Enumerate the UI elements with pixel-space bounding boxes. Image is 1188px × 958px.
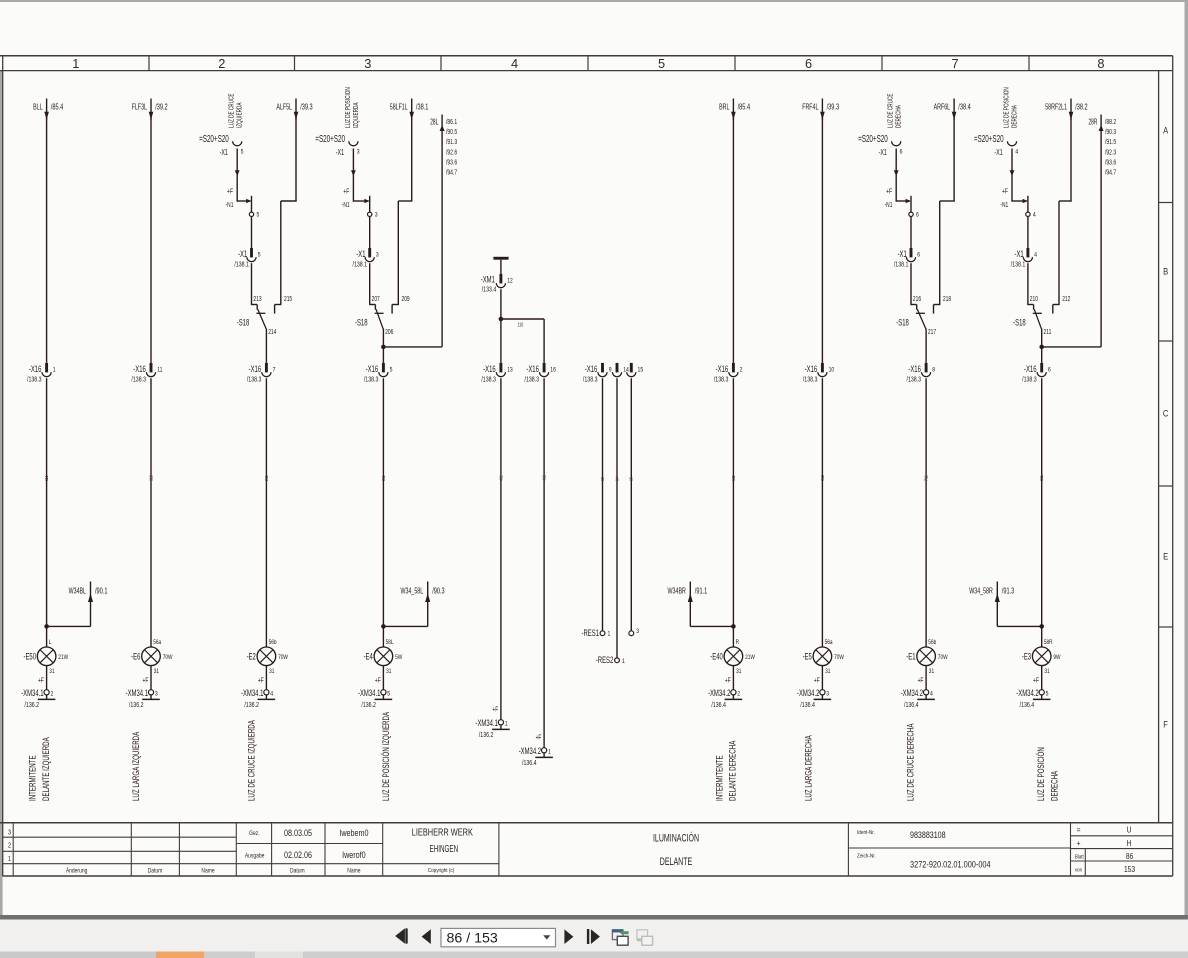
svg-text:ILUMINACIÓN: ILUMINACIÓN (653, 832, 699, 844)
svg-text:BRL: BRL (719, 104, 730, 112)
svg-text:/92.3: /92.3 (1105, 148, 1117, 156)
svg-text:811: 811 (1039, 475, 1045, 481)
svg-text:-X16: -X16 (1024, 364, 1037, 375)
svg-text:412: 412 (541, 475, 547, 481)
svg-text:/138.3: /138.3 (803, 376, 818, 384)
svg-text:5: 5 (658, 56, 665, 71)
svg-text:/90.1: /90.1 (95, 588, 108, 596)
svg-text:-XM34.1: -XM34.1 (358, 688, 380, 699)
svg-text:-X16: -X16 (805, 364, 818, 375)
svg-text:08.03.05: 08.03.05 (284, 828, 312, 838)
svg-text:ALF5L: ALF5L (276, 104, 292, 112)
svg-text:65: 65 (599, 477, 605, 481)
svg-text:/138.3: /138.3 (1022, 376, 1037, 384)
svg-text:16: 16 (550, 367, 556, 374)
svg-text:-X16: -X16 (133, 364, 146, 375)
svg-text:Änderung: Änderung (66, 867, 87, 875)
svg-text:3: 3 (8, 829, 12, 837)
svg-text:LUZ DE CRUCE IZQUIERDA: LUZ DE CRUCE IZQUIERDA (246, 720, 257, 801)
svg-text:/138.3: /138.3 (525, 376, 540, 384)
svg-text:11: 11 (157, 367, 163, 374)
svg-text:7: 7 (951, 56, 958, 71)
svg-text:+F: +F (142, 676, 148, 684)
svg-text:Iwerof0: Iwerof0 (342, 850, 366, 860)
svg-text:W34BR: W34BR (668, 588, 686, 596)
svg-text:217: 217 (928, 328, 937, 336)
svg-text:/136.2: /136.2 (479, 731, 494, 739)
svg-text:15: 15 (628, 477, 634, 481)
svg-text:-N1: -N1 (1000, 201, 1008, 209)
svg-text:612: 612 (819, 475, 825, 481)
svg-text:14: 14 (614, 477, 620, 481)
svg-text:+F: +F (1002, 188, 1008, 196)
svg-text:-N1: -N1 (885, 201, 893, 209)
svg-text:/138.3: /138.3 (583, 376, 598, 384)
svg-text:E: E (1163, 551, 1168, 562)
svg-text:206: 206 (385, 328, 394, 336)
svg-text:/90.3: /90.3 (432, 588, 445, 596)
svg-text:311: 311 (380, 475, 386, 481)
svg-text:-XM34.1: -XM34.1 (21, 688, 43, 699)
svg-text:B: B (1163, 266, 1168, 277)
svg-text:DERECHA: DERECHA (896, 104, 903, 128)
svg-text:2: 2 (218, 56, 225, 71)
svg-text:31: 31 (386, 668, 391, 675)
svg-text:-X16: -X16 (716, 364, 729, 375)
svg-text:FRF4L: FRF4L (802, 104, 818, 112)
svg-text:56a: 56a (153, 639, 162, 646)
svg-text:70W: 70W (938, 655, 948, 662)
svg-text:-X1: -X1 (356, 249, 365, 260)
svg-text:-X16: -X16 (908, 364, 921, 375)
svg-text:/138.3: /138.3 (364, 376, 379, 384)
svg-text:/138.1: /138.1 (1011, 261, 1026, 269)
svg-text:+F: +F (343, 188, 349, 196)
svg-text:56b: 56b (269, 639, 278, 646)
svg-text:LUZ DE CRUCE: LUZ DE CRUCE (229, 93, 236, 128)
svg-text:-X16: -X16 (483, 364, 496, 375)
svg-text:+F: +F (536, 734, 542, 742)
svg-text:+F: +F (814, 676, 820, 684)
svg-text:-X1: -X1 (879, 148, 887, 158)
svg-text:W34_58R: W34_58R (969, 588, 993, 596)
svg-text:INTERMITENTE: INTERMITENTE (714, 755, 725, 801)
svg-text:-X1: -X1 (1014, 249, 1023, 260)
svg-text:+F: +F (1033, 676, 1039, 684)
svg-text:31: 31 (929, 668, 934, 675)
svg-text:EHINGEN: EHINGEN (429, 842, 458, 854)
svg-text:70W: 70W (163, 655, 173, 662)
svg-text:INTERMITENTE: INTERMITENTE (27, 755, 38, 801)
svg-text:U: U (1127, 825, 1132, 835)
svg-text:LUZ DE POSICION: LUZ DE POSICION (1004, 87, 1011, 128)
svg-text:-XM1: -XM1 (481, 274, 495, 285)
svg-text:+F: +F (227, 188, 233, 196)
svg-text:1: 1 (8, 855, 12, 863)
svg-text:/136.4: /136.4 (800, 701, 815, 709)
svg-text:-S18: -S18 (237, 317, 250, 328)
svg-text:LUZ DE CRUCE: LUZ DE CRUCE (888, 93, 895, 128)
svg-text:LUZ DE POSICIÓN: LUZ DE POSICIÓN (1036, 747, 1047, 801)
svg-text:2: 2 (8, 842, 12, 850)
svg-text:W34_58L: W34_58L (401, 588, 424, 596)
svg-text:209: 209 (402, 295, 411, 303)
svg-text:6: 6 (805, 56, 812, 71)
svg-text:=: = (1077, 825, 1081, 835)
svg-text:/91.5: /91.5 (1105, 138, 1117, 146)
svg-text:8: 8 (1097, 56, 1104, 71)
svg-text:70W: 70W (834, 655, 844, 662)
svg-text:LUZ DE POSICION: LUZ DE POSICION (345, 87, 352, 128)
svg-text:Datum: Datum (148, 868, 163, 875)
svg-text:/133.4: /133.4 (482, 286, 497, 294)
svg-text:-X16: -X16 (29, 364, 42, 375)
svg-text:=S20+S20: =S20+S20 (858, 132, 888, 144)
svg-text:58LF1L: 58LF1L (390, 104, 408, 112)
svg-text:28L: 28L (430, 119, 438, 127)
svg-text:+: + (1077, 838, 1081, 848)
svg-text:/138.3: /138.3 (481, 376, 496, 384)
svg-text:-RES2: -RES2 (596, 655, 613, 666)
svg-text:983883108: 983883108 (910, 830, 946, 840)
svg-text:Ident-Nr.: Ident-Nr. (857, 830, 875, 837)
svg-text:58R: 58R (1044, 639, 1053, 646)
svg-text:/92.6: /92.6 (446, 148, 458, 156)
svg-text:-X1: -X1 (898, 249, 907, 260)
svg-text:-X1: -X1 (336, 148, 344, 158)
svg-text:-N1: -N1 (226, 201, 234, 209)
svg-text:/91.1: /91.1 (695, 588, 708, 596)
svg-text:-X16: -X16 (585, 364, 598, 375)
svg-text:-E5: -E5 (803, 651, 812, 662)
svg-text:LUZ LARGA DERECHA: LUZ LARGA DERECHA (803, 735, 814, 801)
svg-text:9W: 9W (1053, 655, 1061, 662)
svg-text:-S18: -S18 (896, 317, 909, 328)
svg-text:/138.1: /138.1 (894, 261, 909, 269)
svg-text:611: 611 (730, 475, 736, 481)
svg-text:/85.4: /85.4 (51, 104, 64, 112)
svg-text:/136.4: /136.4 (1020, 701, 1035, 709)
svg-text:5W: 5W (395, 655, 403, 662)
svg-text:-S18: -S18 (355, 317, 368, 328)
svg-text:411: 411 (498, 475, 504, 481)
svg-text:70W: 70W (278, 655, 288, 662)
svg-text:/138.1: /138.1 (353, 261, 368, 269)
svg-text:/39.2: /39.2 (155, 104, 168, 112)
svg-text:-XM34.1: -XM34.1 (241, 688, 263, 699)
svg-text:/91.3: /91.3 (446, 138, 458, 146)
svg-text:4: 4 (511, 56, 518, 71)
svg-text:/91.3: /91.3 (1002, 588, 1015, 596)
svg-text:/136.2: /136.2 (361, 701, 376, 709)
svg-text:-RES1: -RES1 (582, 628, 599, 639)
svg-text:-E6: -E6 (131, 651, 140, 662)
svg-text:Blatt: Blatt (1075, 854, 1084, 861)
svg-text:/90.3: /90.3 (1105, 128, 1117, 136)
svg-text:Zeich-Nr.: Zeich-Nr. (857, 853, 876, 860)
svg-text:IZQUIERDA: IZQUIERDA (353, 102, 360, 128)
svg-text:711: 711 (923, 475, 929, 481)
svg-text:H: H (1127, 838, 1132, 848)
svg-text:=S20+S20: =S20+S20 (315, 132, 345, 144)
svg-text:/136.4: /136.4 (711, 701, 726, 709)
svg-text:1: 1 (72, 56, 79, 71)
svg-text:207: 207 (372, 295, 381, 303)
svg-text:DELANTE DERECHA: DELANTE DERECHA (727, 740, 738, 801)
svg-text:111: 111 (43, 475, 49, 481)
svg-text:31: 31 (49, 668, 54, 675)
svg-text:R: R (736, 639, 739, 646)
svg-text:-S18: -S18 (1013, 317, 1026, 328)
svg-text:+F: +F (492, 706, 498, 714)
svg-text:-X16: -X16 (366, 364, 379, 375)
svg-text:-X1: -X1 (994, 148, 1002, 158)
svg-text:Gez.: Gez. (249, 831, 260, 838)
svg-text:-E1: -E1 (906, 651, 915, 662)
svg-text:-X1: -X1 (220, 148, 228, 158)
svg-text:/138.3: /138.3 (27, 376, 42, 384)
svg-text:3272-920.02.01.000-004: 3272-920.02.01.000-004 (910, 859, 991, 870)
svg-text:-E3: -E3 (1022, 651, 1031, 662)
svg-text:-XM34.2: -XM34.2 (901, 688, 923, 699)
svg-text:DERECHA: DERECHA (1049, 770, 1060, 801)
svg-text:/136.2: /136.2 (25, 701, 40, 709)
svg-text:-XM34.2: -XM34.2 (1016, 688, 1038, 699)
svg-text:31: 31 (1044, 668, 1049, 675)
svg-text:12: 12 (507, 278, 513, 285)
svg-text:DERECHA: DERECHA (1012, 104, 1019, 128)
svg-text:-XM34.2: -XM34.2 (708, 688, 730, 699)
svg-text:28R: 28R (1088, 119, 1097, 127)
svg-text:215: 215 (284, 295, 293, 303)
svg-text:15: 15 (638, 367, 644, 374)
svg-text:W34BL: W34BL (69, 588, 87, 596)
svg-text:212: 212 (1062, 295, 1071, 303)
svg-text:/88.2: /88.2 (1105, 118, 1117, 126)
svg-text:153: 153 (1124, 864, 1135, 874)
svg-text:86: 86 (1126, 851, 1133, 861)
svg-text:DELANTE IZQUIERDA: DELANTE IZQUIERDA (40, 737, 51, 801)
svg-text:/85.4: /85.4 (738, 104, 751, 112)
svg-text:13: 13 (507, 367, 513, 374)
svg-text:31: 31 (825, 668, 830, 675)
svg-text:Iwebem0: Iwebem0 (339, 828, 369, 838)
svg-text:-E40: -E40 (710, 651, 723, 662)
svg-text:F: F (1163, 719, 1168, 730)
svg-text:Datum: Datum (290, 868, 305, 875)
svg-text:-XM34.2: -XM34.2 (519, 746, 541, 757)
svg-text:31: 31 (154, 668, 159, 675)
svg-text:Name: Name (201, 868, 214, 875)
svg-text:211: 211 (1044, 328, 1052, 336)
svg-text:/38.1: /38.1 (416, 104, 429, 112)
svg-text:31: 31 (736, 668, 741, 675)
svg-text:-X1: -X1 (238, 249, 247, 260)
svg-text:/94.7: /94.7 (446, 169, 458, 177)
svg-text:/39.3: /39.3 (827, 104, 840, 112)
svg-text:=S20+S20: =S20+S20 (199, 132, 229, 144)
svg-text:/138.3: /138.3 (907, 376, 922, 384)
svg-text:+F: +F (886, 188, 892, 196)
svg-text:LUZ LARGA IZQUIERDA: LUZ LARGA IZQUIERDA (131, 731, 142, 801)
svg-text:10: 10 (829, 367, 835, 374)
svg-text:A: A (1163, 125, 1168, 136)
svg-text:/38.4: /38.4 (958, 104, 971, 112)
svg-text:-E4: -E4 (364, 651, 374, 662)
svg-text:LIEBHERR WERK: LIEBHERR WERK (412, 826, 473, 837)
svg-text:Copyright (c): Copyright (c) (428, 868, 455, 875)
svg-text:21W: 21W (745, 655, 755, 662)
svg-text:/138.3: /138.3 (247, 376, 262, 384)
svg-text:211: 211 (263, 475, 269, 481)
svg-text:+F: +F (918, 676, 924, 684)
svg-text:-XM34.1: -XM34.1 (475, 718, 497, 729)
svg-text:-XM34.2: -XM34.2 (797, 688, 819, 699)
svg-text:/136.2: /136.2 (129, 701, 144, 709)
svg-text:-X16: -X16 (249, 364, 262, 375)
svg-text:C: C (1163, 408, 1168, 419)
svg-text:-E50: -E50 (23, 651, 36, 662)
svg-text:/138.1: /138.1 (234, 261, 249, 269)
svg-text:von: von (1075, 867, 1082, 874)
svg-text:/90.5: /90.5 (446, 128, 458, 136)
svg-text:56b: 56b (928, 639, 937, 646)
svg-text:IZQUIERDA: IZQUIERDA (237, 102, 244, 128)
svg-text:/86.1: /86.1 (446, 118, 458, 126)
svg-text:214: 214 (268, 328, 277, 336)
svg-text:/93.6: /93.6 (446, 159, 458, 167)
svg-text:+F: +F (375, 676, 381, 684)
svg-text:216: 216 (913, 295, 922, 303)
svg-text:BLL: BLL (33, 104, 43, 112)
svg-text:210: 210 (1030, 295, 1039, 303)
svg-text:/94.7: /94.7 (1105, 169, 1117, 177)
svg-text:56a: 56a (825, 639, 834, 646)
svg-text:-X16: -X16 (526, 364, 539, 375)
svg-text:31: 31 (269, 668, 274, 675)
svg-text:86 / 153: 86 / 153 (447, 930, 498, 946)
svg-text:-XM34.1: -XM34.1 (126, 688, 148, 699)
svg-text:LUZ DE CRUCE DERECHA: LUZ DE CRUCE DERECHA (905, 723, 916, 801)
svg-text:213: 213 (253, 295, 262, 303)
svg-text:58L: 58L (386, 639, 395, 646)
svg-text:+F: +F (725, 676, 731, 684)
svg-text:58RF2L1: 58RF2L1 (1045, 104, 1067, 112)
svg-text:=S20+S20: =S20+S20 (974, 132, 1004, 144)
svg-text:FLF3L: FLF3L (132, 104, 148, 112)
svg-text:218: 218 (943, 295, 952, 303)
svg-text:/93.6: /93.6 (1105, 159, 1117, 167)
svg-text:/39.3: /39.3 (300, 104, 313, 112)
svg-text:DELANTE: DELANTE (660, 855, 692, 867)
svg-text:/38.2: /38.2 (1075, 104, 1088, 112)
svg-text:-N1: -N1 (342, 201, 350, 209)
svg-text:110: 110 (518, 322, 524, 328)
svg-text:112: 112 (148, 475, 154, 481)
svg-text:+F: +F (38, 676, 44, 684)
svg-text:/138.3: /138.3 (714, 376, 729, 384)
svg-text:Name: Name (347, 868, 360, 875)
svg-text:/136.4: /136.4 (904, 701, 919, 709)
svg-text:/136.4: /136.4 (522, 759, 537, 767)
svg-text:/138.3: /138.3 (131, 376, 146, 384)
svg-text:3: 3 (364, 56, 371, 71)
svg-text:+F: +F (258, 676, 264, 684)
svg-text:21W: 21W (58, 655, 68, 662)
svg-text:ARF6L: ARF6L (934, 104, 951, 112)
svg-text:LUZ DE POSICIÓN IZQUIERDA: LUZ DE POSICIÓN IZQUIERDA (381, 711, 392, 801)
svg-text:/136.2: /136.2 (244, 701, 259, 709)
svg-text:-E2: -E2 (247, 651, 256, 662)
svg-text:02.02.06: 02.02.06 (284, 850, 312, 860)
svg-text:Ausgabe: Ausgabe (245, 853, 265, 860)
